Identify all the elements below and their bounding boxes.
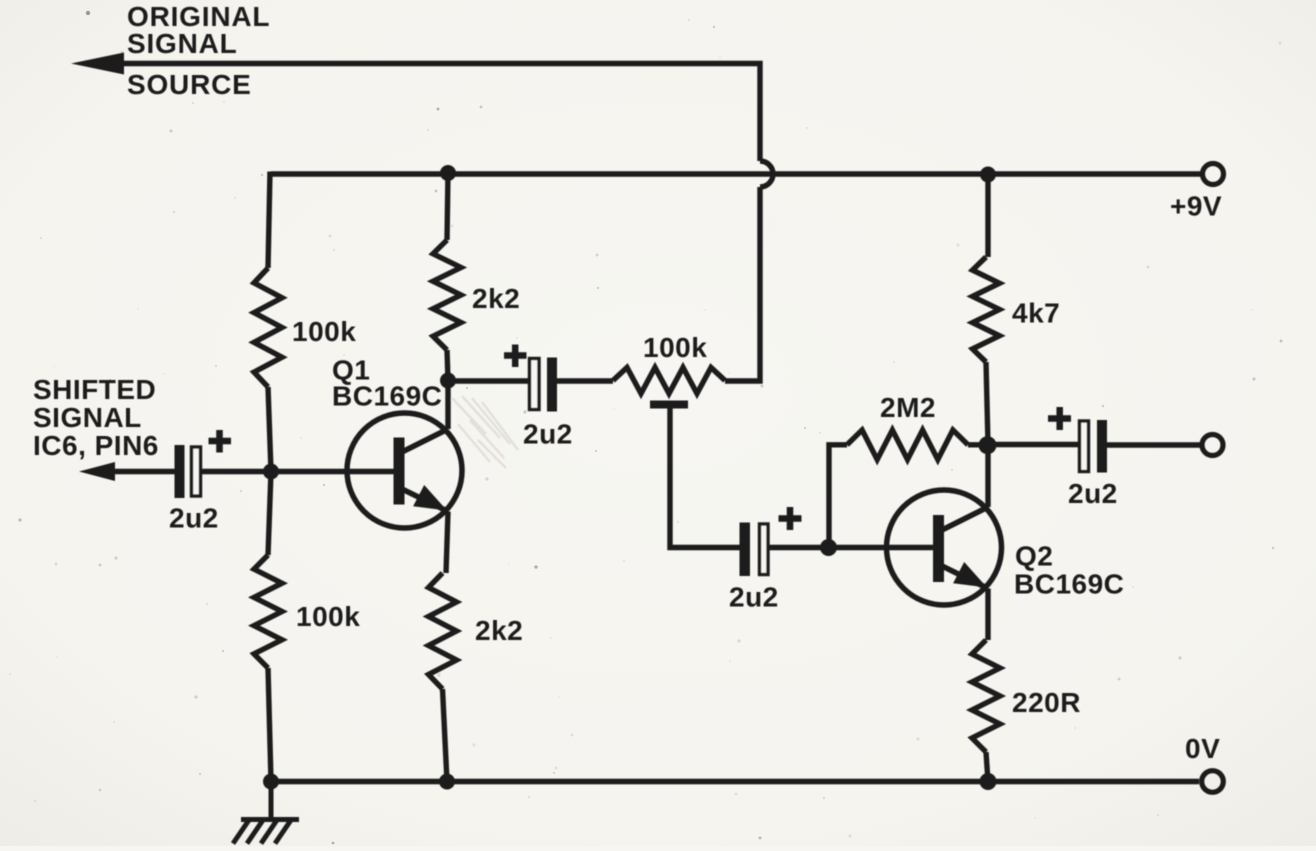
svg-text:IC6, PIN6: IC6, PIN6 — [33, 430, 159, 461]
wire: 2k2 lower to 0V — [443, 689, 448, 782]
capacitor C 2u2 Q2-input: open plate — [760, 524, 769, 575]
svg-text:BC169C: BC169C — [1014, 569, 1124, 600]
capacitor C 2u2 shifted-signal: filled plate — [175, 445, 185, 498]
svg-text:2u2: 2u2 — [523, 419, 573, 450]
svg-text:2u2: 2u2 — [1068, 478, 1118, 509]
Q2 emitter arrowhead — [953, 562, 987, 588]
svg-text:220R: 220R — [1012, 687, 1081, 718]
svg-text:SOURCE: SOURCE — [127, 69, 252, 100]
wire: 2M2 to collector node — [968, 442, 988, 447]
Q2 emitter diagonal — [942, 566, 988, 589]
output terminal — [1202, 435, 1223, 456]
wire: down to 100k pot right end — [725, 187, 760, 381]
node: rail/2k2 — [440, 165, 456, 181]
node: 220R 0V — [980, 773, 997, 790]
wire: rail to 4k7 — [985, 172, 990, 258]
wire: original signal line — [112, 64, 760, 162]
wire: shifted signal out — [108, 469, 175, 474]
+9V rail — [271, 171, 1201, 176]
arrowhead shifted signal — [79, 462, 115, 481]
wire: cap to Q2 base — [768, 545, 936, 550]
svg-text:BC169C: BC169C — [332, 381, 442, 412]
wire: Q1 emitter down — [446, 512, 448, 574]
wire: cap to node — [201, 469, 272, 474]
wire: 220R to 0V rail — [986, 752, 988, 782]
node: left column 0V — [263, 774, 279, 790]
plus sign — [779, 507, 802, 530]
capacitor C 2u2 output: filled plate — [1097, 420, 1107, 473]
wire: lower 100k to 0V rail — [268, 668, 271, 782]
svg-text:0V: 0V — [1185, 733, 1220, 764]
Q1 emitter arrowhead — [413, 485, 447, 511]
resistor R 100k upper-left — [254, 268, 282, 387]
svg-text:2k2: 2k2 — [472, 283, 520, 314]
svg-text:SIGNAL: SIGNAL — [127, 28, 238, 59]
svg-text:+9V: +9V — [1170, 191, 1222, 222]
resistor R 4k7 — [973, 257, 1000, 362]
resistor R 220R — [972, 640, 1000, 752]
transistor Q2 circle — [887, 490, 1002, 605]
wire: between 100k and node — [268, 387, 271, 472]
0V rail — [271, 779, 1199, 784]
node: rail/4k7 — [980, 167, 996, 183]
Q1 base bar — [394, 438, 405, 505]
resistor R 100k lower-left — [254, 555, 282, 668]
0V terminal — [1202, 771, 1224, 793]
node: Q2 base / 2M2 — [820, 539, 837, 556]
paper speckles (decorative) — [427, 129, 430, 132]
svg-text:SIGNAL: SIGNAL — [33, 402, 142, 433]
node: Q2 collector — [979, 436, 997, 454]
smudge near Q1 (decorative) — [452, 396, 518, 468]
ground — [233, 782, 299, 844]
wire: cap to output terminal — [1107, 442, 1200, 447]
resistor R 2k2 lower — [429, 573, 457, 689]
node: Q1 collector — [440, 373, 456, 389]
wire: left branch from rail — [268, 172, 270, 269]
svg-text:100k: 100k — [292, 316, 356, 347]
arrowhead to original signal source — [71, 53, 124, 75]
svg-text:2u2: 2u2 — [729, 582, 779, 613]
svg-text:2u2: 2u2 — [169, 503, 219, 534]
wire: wiper down and to cap — [670, 408, 740, 548]
wire: collector node to coupling cap — [448, 378, 530, 383]
wire hop over +9V rail — [760, 161, 773, 187]
wire: Q1 base — [271, 469, 396, 474]
svg-text:4k7: 4k7 — [1012, 298, 1060, 329]
wire: Q2 emitter to 220R — [985, 589, 990, 641]
Q2 base bar — [933, 515, 944, 582]
+9V terminal — [1203, 164, 1224, 185]
resistor R 2M2 — [847, 430, 968, 460]
svg-text:2k2: 2k2 — [475, 615, 523, 646]
plus sign — [1048, 407, 1071, 430]
node: left column / Q1 base — [263, 464, 279, 480]
capacitor C 2u2 Q2-input: filled plate — [740, 523, 751, 577]
pot wiper bar — [650, 401, 688, 409]
Q1 collector diagonal — [402, 429, 448, 452]
transistor Q1 circle — [347, 413, 462, 528]
svg-text:100k: 100k — [643, 332, 707, 363]
wire: collector vertical — [445, 381, 450, 430]
svg-text:100k: 100k — [296, 601, 360, 632]
plus sign — [209, 430, 232, 453]
svg-text:Q2: Q2 — [1015, 541, 1053, 572]
node: 2k2 lower 0V — [439, 774, 455, 790]
plus sign — [504, 345, 527, 368]
wire: 2k2 to Q1 collector node — [447, 350, 448, 381]
capacitor C 2u2 shifted-signal: open plate — [192, 447, 201, 496]
wire: 2M2 left leg — [829, 445, 847, 548]
capacitor C 2u2 mid: open plate — [530, 359, 540, 410]
wire: node down to lower 100k — [268, 472, 271, 556]
resistor R 100k pot body — [613, 368, 725, 394]
wire: 4k7 to collector node — [986, 362, 988, 507]
svg-text:SHIFTED: SHIFTED — [33, 374, 156, 405]
capacitor C 2u2 mid: filled plate — [547, 358, 557, 412]
wire: rail to 2k2 upper — [447, 172, 448, 241]
svg-text:2M2: 2M2 — [880, 392, 936, 423]
wire: output — [988, 442, 1080, 447]
wire: cap to pot — [557, 378, 613, 383]
resistor R 2k2 upper — [433, 240, 461, 350]
capacitor C 2u2 output: open plate — [1080, 421, 1089, 472]
Q1 emitter diagonal — [402, 489, 448, 512]
Q2 collector diagonal — [942, 507, 988, 530]
